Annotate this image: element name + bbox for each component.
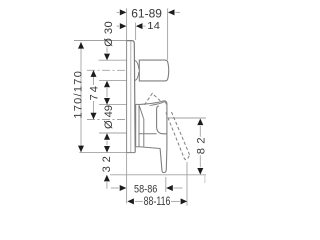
escutcheon top extension line (d49) <box>99 104 127 106</box>
wall plate front edge with rounded top corner <box>127 41 136 153</box>
wall plate bottom edge <box>127 152 136 154</box>
escutcheon shoulder slant <box>139 106 143 119</box>
dashed open-lever back edge <box>166 113 184 158</box>
wall plane extension line (top) <box>126 8 128 40</box>
lever bottom extension line (32 / 82 dims) <box>110 174 206 176</box>
lever escutcheon bottom edge <box>136 146 140 148</box>
escutcheon bottom extension line (d49) <box>99 132 127 134</box>
knob top extension line (d30) <box>99 59 127 61</box>
svg-text:88-116: 88-116 <box>144 196 171 208</box>
dashed lever tip extension line (88-116 dim) <box>186 162 188 206</box>
plate top extension line <box>74 40 127 42</box>
dim 32 <box>104 146 110 153</box>
svg-text:14: 14 <box>147 21 160 32</box>
lever cone front line <box>143 119 145 147</box>
lever underside line <box>140 147 161 149</box>
wall plane extension line (bottom) <box>126 153 128 204</box>
knob front extension line (61-89 dim) <box>167 8 169 60</box>
svg-text:61-89: 61-89 <box>131 8 162 21</box>
dashed-lever top extension line (82 dim) <box>168 117 206 119</box>
svg-text:58-86: 58-86 <box>134 184 157 196</box>
knob neck waist <box>135 60 139 80</box>
dashed open-lever tip arc <box>184 155 190 160</box>
lever handle front edge, cap, blade and bottom tip <box>160 101 167 173</box>
lever handle top edge <box>141 101 164 105</box>
faint stub below 82 bottom <box>204 175 206 183</box>
centerline lever axis <box>87 119 127 121</box>
lever cap inner lip <box>164 102 167 105</box>
plate bottom extension line <box>79 152 126 154</box>
svg-text:Ø 49: Ø 49 <box>103 105 115 129</box>
lever inner C contour <box>157 106 167 134</box>
dim 58-86 row <box>111 187 119 189</box>
lever escutcheon top edge <box>135 103 141 105</box>
dim 82 <box>199 126 201 137</box>
dashed open-lever heel peak <box>145 93 161 104</box>
wall plate mid face line <box>130 41 132 153</box>
dim 88-116 row <box>127 198 134 204</box>
svg-text:Ø 30: Ø 30 <box>103 21 115 46</box>
dim 14 row <box>117 25 120 27</box>
lever escutcheon front line <box>138 104 140 147</box>
lever cap inner top line <box>150 102 164 105</box>
dim 170/170 <box>80 42 82 152</box>
knob bottom extension line (d30) <box>99 80 127 82</box>
plate front extension line (14 dim) <box>135 23 137 40</box>
volume knob d30 body <box>139 60 168 81</box>
dim d49 <box>104 98 110 105</box>
lever body step line <box>139 133 157 135</box>
dashed open-lever front edge <box>172 112 190 155</box>
lever front extension line (58-86 dim) <box>165 177 167 192</box>
wall plate back edge <box>126 41 128 153</box>
lever escutcheon back line <box>135 104 137 147</box>
dim 74 <box>93 70 95 85</box>
centerline knob axis <box>87 69 127 71</box>
dim 61-89 row <box>117 11 120 13</box>
